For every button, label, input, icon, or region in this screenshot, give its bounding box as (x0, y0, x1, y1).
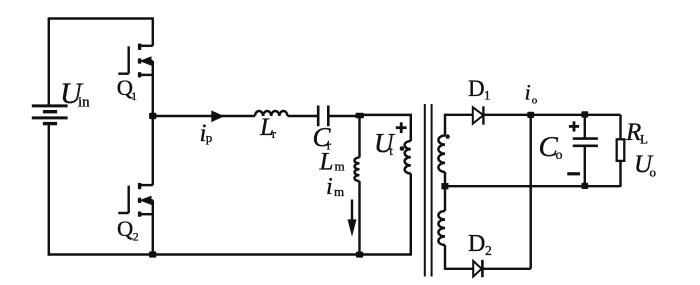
label Q2 (117, 216, 139, 243)
transistor Q1 (118, 17, 153, 117)
label D2 (468, 231, 492, 258)
svg-text:Q: Q (117, 216, 133, 241)
wire center tap rail (445, 185, 621, 187)
wire Cr to node B (328, 115, 360, 117)
svg-text:1: 1 (131, 91, 137, 103)
node io junction (527, 112, 534, 118)
node B junction (356, 113, 364, 119)
label Cr (313, 122, 332, 153)
node A junction (149, 113, 156, 119)
wire left rail lower (48, 124, 50, 256)
label Co (539, 131, 563, 163)
svg-text:2: 2 (133, 230, 139, 244)
label + (Ut polarity) (396, 122, 407, 133)
wire secondary top to D1 (445, 114, 473, 116)
node Lm bottom junction (356, 252, 363, 258)
label Uin (60, 77, 90, 111)
svg-text:R: R (625, 119, 641, 146)
transistor Q2 (118, 116, 153, 255)
arrow im (348, 200, 355, 235)
transformer secondary winding lower (438, 186, 445, 270)
label D1 (468, 76, 491, 102)
svg-text:m: m (335, 159, 345, 174)
svg-text:m: m (334, 184, 344, 199)
label - (Co polarity) (567, 172, 580, 175)
diode D1 (473, 106, 484, 124)
wire top-left rail (49, 17, 153, 19)
node Q2 source junction (149, 251, 156, 257)
svg-text:p: p (206, 130, 213, 145)
node Co bottom junction (581, 183, 588, 189)
wire output top rail (531, 114, 621, 116)
svg-text:L: L (319, 149, 334, 176)
svg-text:D: D (468, 76, 485, 101)
label Uo (634, 151, 656, 180)
wire secondary bottom to D2 (445, 268, 473, 270)
svg-text:2: 2 (485, 243, 492, 258)
label im (326, 174, 344, 200)
label Q1 (117, 75, 138, 103)
label Lr (259, 114, 277, 141)
svg-text:D: D (468, 231, 485, 257)
label io (525, 80, 538, 107)
svg-text:i: i (326, 174, 333, 200)
inductor Lr (255, 111, 287, 116)
svg-text:t: t (389, 143, 393, 158)
svg-text:o: o (532, 95, 538, 107)
wire midpoint to Lr (153, 115, 255, 117)
capacitor Cr (318, 106, 328, 127)
diode D2 (473, 260, 482, 277)
svg-text:in: in (78, 95, 90, 111)
primary phase dot (400, 146, 405, 151)
wire io vertical (D2 cathode to output) (529, 115, 531, 269)
wire D2 bottom rail (482, 268, 530, 270)
node Co top junction (581, 111, 588, 117)
inductor Lm (355, 116, 360, 255)
svg-text:i: i (525, 80, 531, 105)
wire D1 to node io (483, 114, 530, 116)
wire node B to transformer (360, 114, 412, 116)
transformer core (425, 104, 432, 277)
transformer secondary winding upper (438, 114, 445, 187)
wire Lr to Cr (288, 115, 319, 117)
arrow ip (212, 112, 223, 122)
label + (Co polarity) (569, 121, 579, 131)
capacitor Co (573, 115, 598, 186)
svg-text:o: o (650, 165, 657, 180)
wire bottom rail (48, 253, 411, 255)
transformer primary winding (405, 114, 411, 256)
label Lm (319, 149, 345, 176)
label RL (625, 119, 648, 147)
secondary phase dot (445, 134, 449, 138)
label Ut (374, 128, 395, 158)
svg-text:L: L (640, 132, 648, 147)
resistor RL (617, 115, 625, 187)
label ip (200, 120, 213, 147)
svg-text:r: r (272, 126, 277, 141)
battery Uin (32, 106, 68, 124)
node center tap junction (441, 183, 448, 189)
svg-text:o: o (556, 148, 563, 163)
wire left rail upper (48, 17, 50, 106)
svg-text:1: 1 (484, 87, 491, 102)
